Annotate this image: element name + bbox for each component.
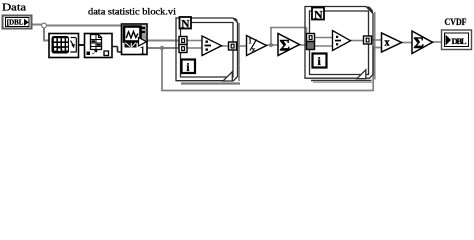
svg-text:Σ: Σ xyxy=(280,38,290,55)
svg-text:x: x xyxy=(385,38,390,49)
svg-text:DBL: DBL xyxy=(452,36,467,46)
svg-text:1: 1 xyxy=(140,43,146,57)
svg-text:data statistic block.vi: data statistic block.vi xyxy=(88,6,177,16)
svg-text:Σ: Σ xyxy=(414,35,424,52)
svg-text:Data: Data xyxy=(2,3,27,14)
svg-text:[DBL: [DBL xyxy=(7,18,24,27)
svg-text:CVDF: CVDF xyxy=(445,18,467,28)
svg-text:N: N xyxy=(181,18,190,30)
svg-text:x: x xyxy=(252,45,256,54)
svg-text:N: N xyxy=(314,7,323,21)
